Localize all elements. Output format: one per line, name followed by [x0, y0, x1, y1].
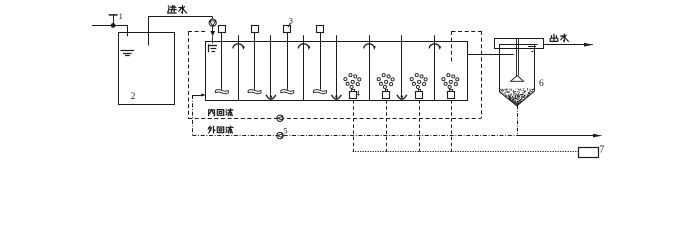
svg-text:1: 1 — [119, 11, 123, 21]
svg-text:6: 6 — [539, 79, 544, 89]
svg-text:3: 3 — [289, 16, 293, 26]
svg-text:5: 5 — [283, 126, 287, 136]
svg-text:4: 4 — [356, 88, 361, 98]
svg-text:2: 2 — [131, 92, 136, 102]
svg-text:7: 7 — [599, 144, 604, 155]
